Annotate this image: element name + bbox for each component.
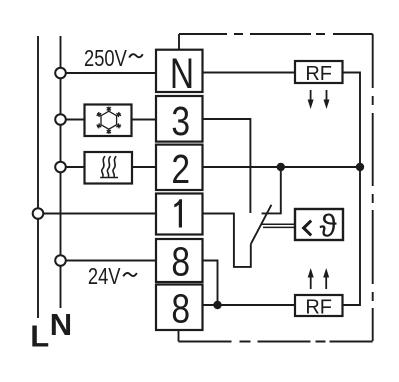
terminal circle cooling feed on N line	[55, 114, 66, 125]
RF receiver enclosure dash-dot border right	[372, 34, 374, 342]
wire terminal 8 lower to RF module bottom	[203, 304, 296, 306]
svg-text:2: 2	[171, 146, 190, 192]
terminal 2	[156, 145, 203, 192]
wire terminal 8 upper down to lower-8 net	[203, 261, 218, 306]
terminal 1	[156, 194, 203, 235]
junction dot terminal 2 / right bus	[356, 163, 364, 171]
wire 250V feed to terminal N	[66, 72, 156, 74]
switch moving blade	[251, 205, 272, 244]
wire cooling box to terminal 3	[132, 119, 157, 121]
svg-text:L: L	[30, 319, 49, 354]
wire N line to cooling box	[66, 119, 85, 121]
wire terminal 2 to right bus	[203, 166, 361, 168]
terminal 8 lower	[156, 285, 203, 332]
terminal 3	[156, 96, 203, 144]
RF receiver enclosure dash-dot border bottom	[179, 341, 373, 343]
RF transmit arrows down	[308, 90, 330, 109]
junction dot terminal 2 / switch branch	[277, 163, 285, 171]
cooling device box (snowflake)	[85, 105, 132, 137]
svg-text:ϑ: ϑ	[320, 207, 337, 243]
terminal circle heating feed on N line	[55, 162, 66, 173]
thermostat mechanical link (double line)	[261, 224, 296, 227]
svg-text:8: 8	[171, 238, 190, 284]
RF module top	[295, 61, 343, 85]
enclosure top tab (terminal N to border)	[178, 34, 180, 50]
svg-text:RF: RF	[305, 63, 332, 85]
wire RF module top to right bus	[343, 73, 361, 168]
label 24V~	[88, 264, 137, 290]
wire L line to terminal 1	[44, 213, 157, 215]
svg-text:N: N	[170, 50, 194, 98]
RF module bottom	[295, 295, 343, 319]
svg-text:24V: 24V	[88, 264, 121, 290]
wire L supply line	[37, 36, 39, 318]
wire N supply line	[60, 36, 62, 308]
svg-text:8: 8	[171, 285, 190, 331]
wire terminal 3 to switch fixed contact	[203, 119, 251, 213]
wire terminal N to RF module	[203, 72, 296, 74]
label 250V~	[84, 46, 143, 72]
wire N line to heating box	[66, 166, 85, 168]
RF receiver enclosure dash-dot border top	[179, 33, 373, 35]
RF receive arrows up	[308, 268, 330, 289]
wire terminal 1 to switch blade pivot	[203, 214, 251, 267]
terminal circle on L line (terminal 1 feed)	[33, 208, 44, 219]
svg-text:N: N	[50, 307, 72, 342]
switch right fixed contact from junction	[262, 167, 281, 213]
wire RF module bottom to right bus	[343, 167, 361, 305]
enclosure bottom tab (terminal 8 to border)	[178, 330, 180, 342]
terminal circle 250V feed on N line	[55, 68, 66, 79]
junction dot terminal 8 net	[213, 301, 221, 309]
thermostat box (&lt; theta)	[295, 207, 343, 243]
heating device box (heat waves)	[85, 152, 133, 184]
svg-text:3: 3	[171, 98, 190, 144]
terminal 8 upper	[156, 238, 203, 284]
terminal circle 24V feed on N line	[55, 255, 66, 266]
wire 24V feed to terminal 8	[66, 260, 156, 262]
wire heating box to terminal 2	[132, 166, 156, 168]
terminal N	[156, 50, 203, 98]
svg-text:RF: RF	[305, 297, 332, 319]
svg-text:250V: 250V	[84, 46, 127, 72]
